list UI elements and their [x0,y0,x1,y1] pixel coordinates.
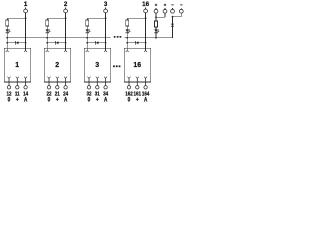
svg-text:2: 2 [64,1,68,8]
relay 3 contact pin 31 [96,77,99,86]
LED D2 [46,29,51,33]
junction minus rail [172,16,174,18]
wire plus 2 down [164,13,166,17]
svg-text:16: 16 [142,1,149,8]
junction plus rail [155,16,157,18]
svg-text:3: 3 [104,1,108,8]
relay 2 top coil pin plus arrow [64,48,67,52]
svg-text:+: + [16,97,19,104]
suppressor diode V2 [55,41,58,45]
junction input 2 [65,17,67,19]
LED D1 [6,29,11,33]
svg-text:3: 3 [95,62,99,69]
relay 3 top coil pin plus arrow [104,48,107,52]
LED D16 [126,29,131,33]
wire minus 2 down [180,13,182,17]
wire LED branch 2 vertical [46,18,48,48]
wire stub above terminal minus 1 [172,8,174,9]
wire input 16 to LED branch [127,17,145,19]
resistor R1 [6,20,9,26]
svg-text:0: 0 [128,97,131,104]
junction LED branch 2 to minus bus [46,37,48,39]
wire minus bus left section [7,37,111,39]
junction LED branch 16 to minus bus [126,37,128,39]
wire stub above terminal plus 2 [164,8,166,9]
relay 16 top coil pin plus arrow [144,48,147,52]
junction suppressor line right 16 [145,42,147,44]
LED D3 [86,29,91,33]
minus label terminal 2 [180,4,182,6]
svg-text:A: A [144,97,147,104]
svg-text:0: 0 [88,97,91,104]
suppressor diode V3 [95,41,98,45]
relay 2 contact pin 24 [64,77,67,86]
relay 3 top coil pin minus arrow [86,48,89,52]
wire input 3 down to relay [105,13,107,48]
svg-text:+: + [96,97,99,104]
junction input 1 [25,17,27,19]
terminal circle 11 [16,86,19,89]
terminal circle channel 16 [144,9,148,13]
relay K2 body [44,48,71,82]
wire stub above terminal 1 [25,8,27,10]
terminal circle 12 [7,86,10,89]
terminal circle channel 2 [64,9,68,13]
svg-text:+: + [136,97,139,104]
terminal circle plus 2 [163,9,167,13]
svg-text:1: 1 [24,1,28,8]
wire minus bus right section [125,37,173,39]
ellipsis continuation bus [114,36,121,38]
resistor R3 [86,20,89,26]
wire suppressor diode line 16 [127,42,145,44]
wire suppressor diode line 2 [47,42,65,44]
wire input 2 down to relay [65,13,67,48]
junction suppressor line left 2 [46,42,48,44]
resistor R2 [46,20,49,26]
wire input 1 to LED branch [7,17,25,19]
relay 16 top coil pin minus arrow [126,48,129,52]
svg-text:0: 0 [8,97,11,104]
wire minus 2 to minus 1 [173,16,182,18]
relay 16 contact pin 162 [128,77,131,86]
terminal circle 24 [64,86,67,89]
terminal circle 14 [24,86,27,89]
junction suppressor line right 1 [25,42,27,44]
relay 2 top coil pin minus arrow [46,48,49,52]
relay K16 body [124,48,151,82]
terminal circle 161 [136,86,139,89]
wire stub above terminal 3 [105,8,107,10]
wire input 3 to LED branch [87,17,105,19]
wire stub above terminal plus 1 [155,8,157,9]
relay 1 top coil pin minus arrow [6,48,9,52]
terminal circle 162 [127,86,130,89]
relay 16 contact pin 164 [144,77,147,86]
junction suppressor line left 16 [126,42,128,44]
minus label terminal 1 [171,4,173,6]
svg-text:1: 1 [15,62,19,69]
ellipsis continuation relays [113,65,120,67]
wire plus 2 to plus 1 [156,16,165,18]
wire input 1 down to relay [25,13,27,48]
svg-text:A: A [64,97,67,104]
svg-text:A: A [24,97,27,104]
wire suppressor diode line 1 [7,42,25,44]
terminal circle 31 [96,86,99,89]
wire LED branch 3 vertical [86,18,88,48]
relay 2 contact pin 21 [56,77,59,86]
terminal circle minus 1 [171,9,175,13]
terminal circle 164 [144,86,147,89]
diode D18 reverse protection [171,24,174,27]
junction input 3 [105,17,107,19]
wire minus bus up to diode [172,17,174,38]
suppressor diode V16 [135,41,138,45]
junction LED branch 1 to minus bus [6,37,8,39]
svg-text:A: A [104,97,107,104]
terminal circle 21 [56,86,59,89]
plus label terminal 2 [164,4,166,6]
svg-text:2: 2 [55,62,59,69]
relay 3 contact pin 34 [104,77,107,86]
terminal circle 22 [47,86,50,89]
wire stub above terminal 16 [145,8,147,10]
relay 1 contact pin 12 [8,77,11,86]
relay K3 body [84,48,111,82]
wire suppressor diode line 3 [87,42,105,44]
wire LED branch 16 vertical [126,18,128,48]
junction suppressor line right 3 [105,42,107,44]
terminal circle channel 3 [104,9,108,13]
svg-text:0: 0 [48,97,51,104]
svg-text:16: 16 [133,62,141,69]
relay 1 contact pin 11 [16,77,19,86]
wire LED branch 1 vertical [6,18,8,48]
terminal circle channel 1 [24,9,28,13]
junction suppressor line left 1 [6,42,8,44]
relay K1 body [4,48,31,82]
plus label terminal 1 [155,4,157,6]
resistor R17 power [155,21,158,27]
terminal circle 32 [87,86,90,89]
wire stub above terminal 2 [65,8,67,10]
relay 1 contact pin 14 [24,77,27,86]
relay 2 contact pin 22 [48,77,51,86]
relay 3 contact pin 32 [88,77,91,86]
junction LED branch 3 to minus bus [86,37,88,39]
terminal circle minus 2 [179,9,183,13]
terminal circle plus 1 [154,9,158,13]
relay 16 contact pin 161 [136,77,139,86]
suppressor diode V1 [15,41,18,45]
junction input 16 [145,17,147,19]
wire resistor to power LED [155,27,157,38]
terminal circle 34 [104,86,107,89]
junction suppressor line right 2 [65,42,67,44]
resistor R16 [126,20,129,26]
wire stub above terminal minus 2 [180,8,182,9]
junction suppressor line left 3 [86,42,88,44]
wire input 2 to LED branch [47,17,65,19]
wire input 16 down to relay [145,13,147,48]
junction power LED to minus bus [155,37,157,39]
relay 1 top coil pin plus arrow [24,48,27,52]
svg-text:+: + [56,97,59,104]
wire plus 1 down [155,13,157,21]
LED D17 power indicator [154,29,159,33]
